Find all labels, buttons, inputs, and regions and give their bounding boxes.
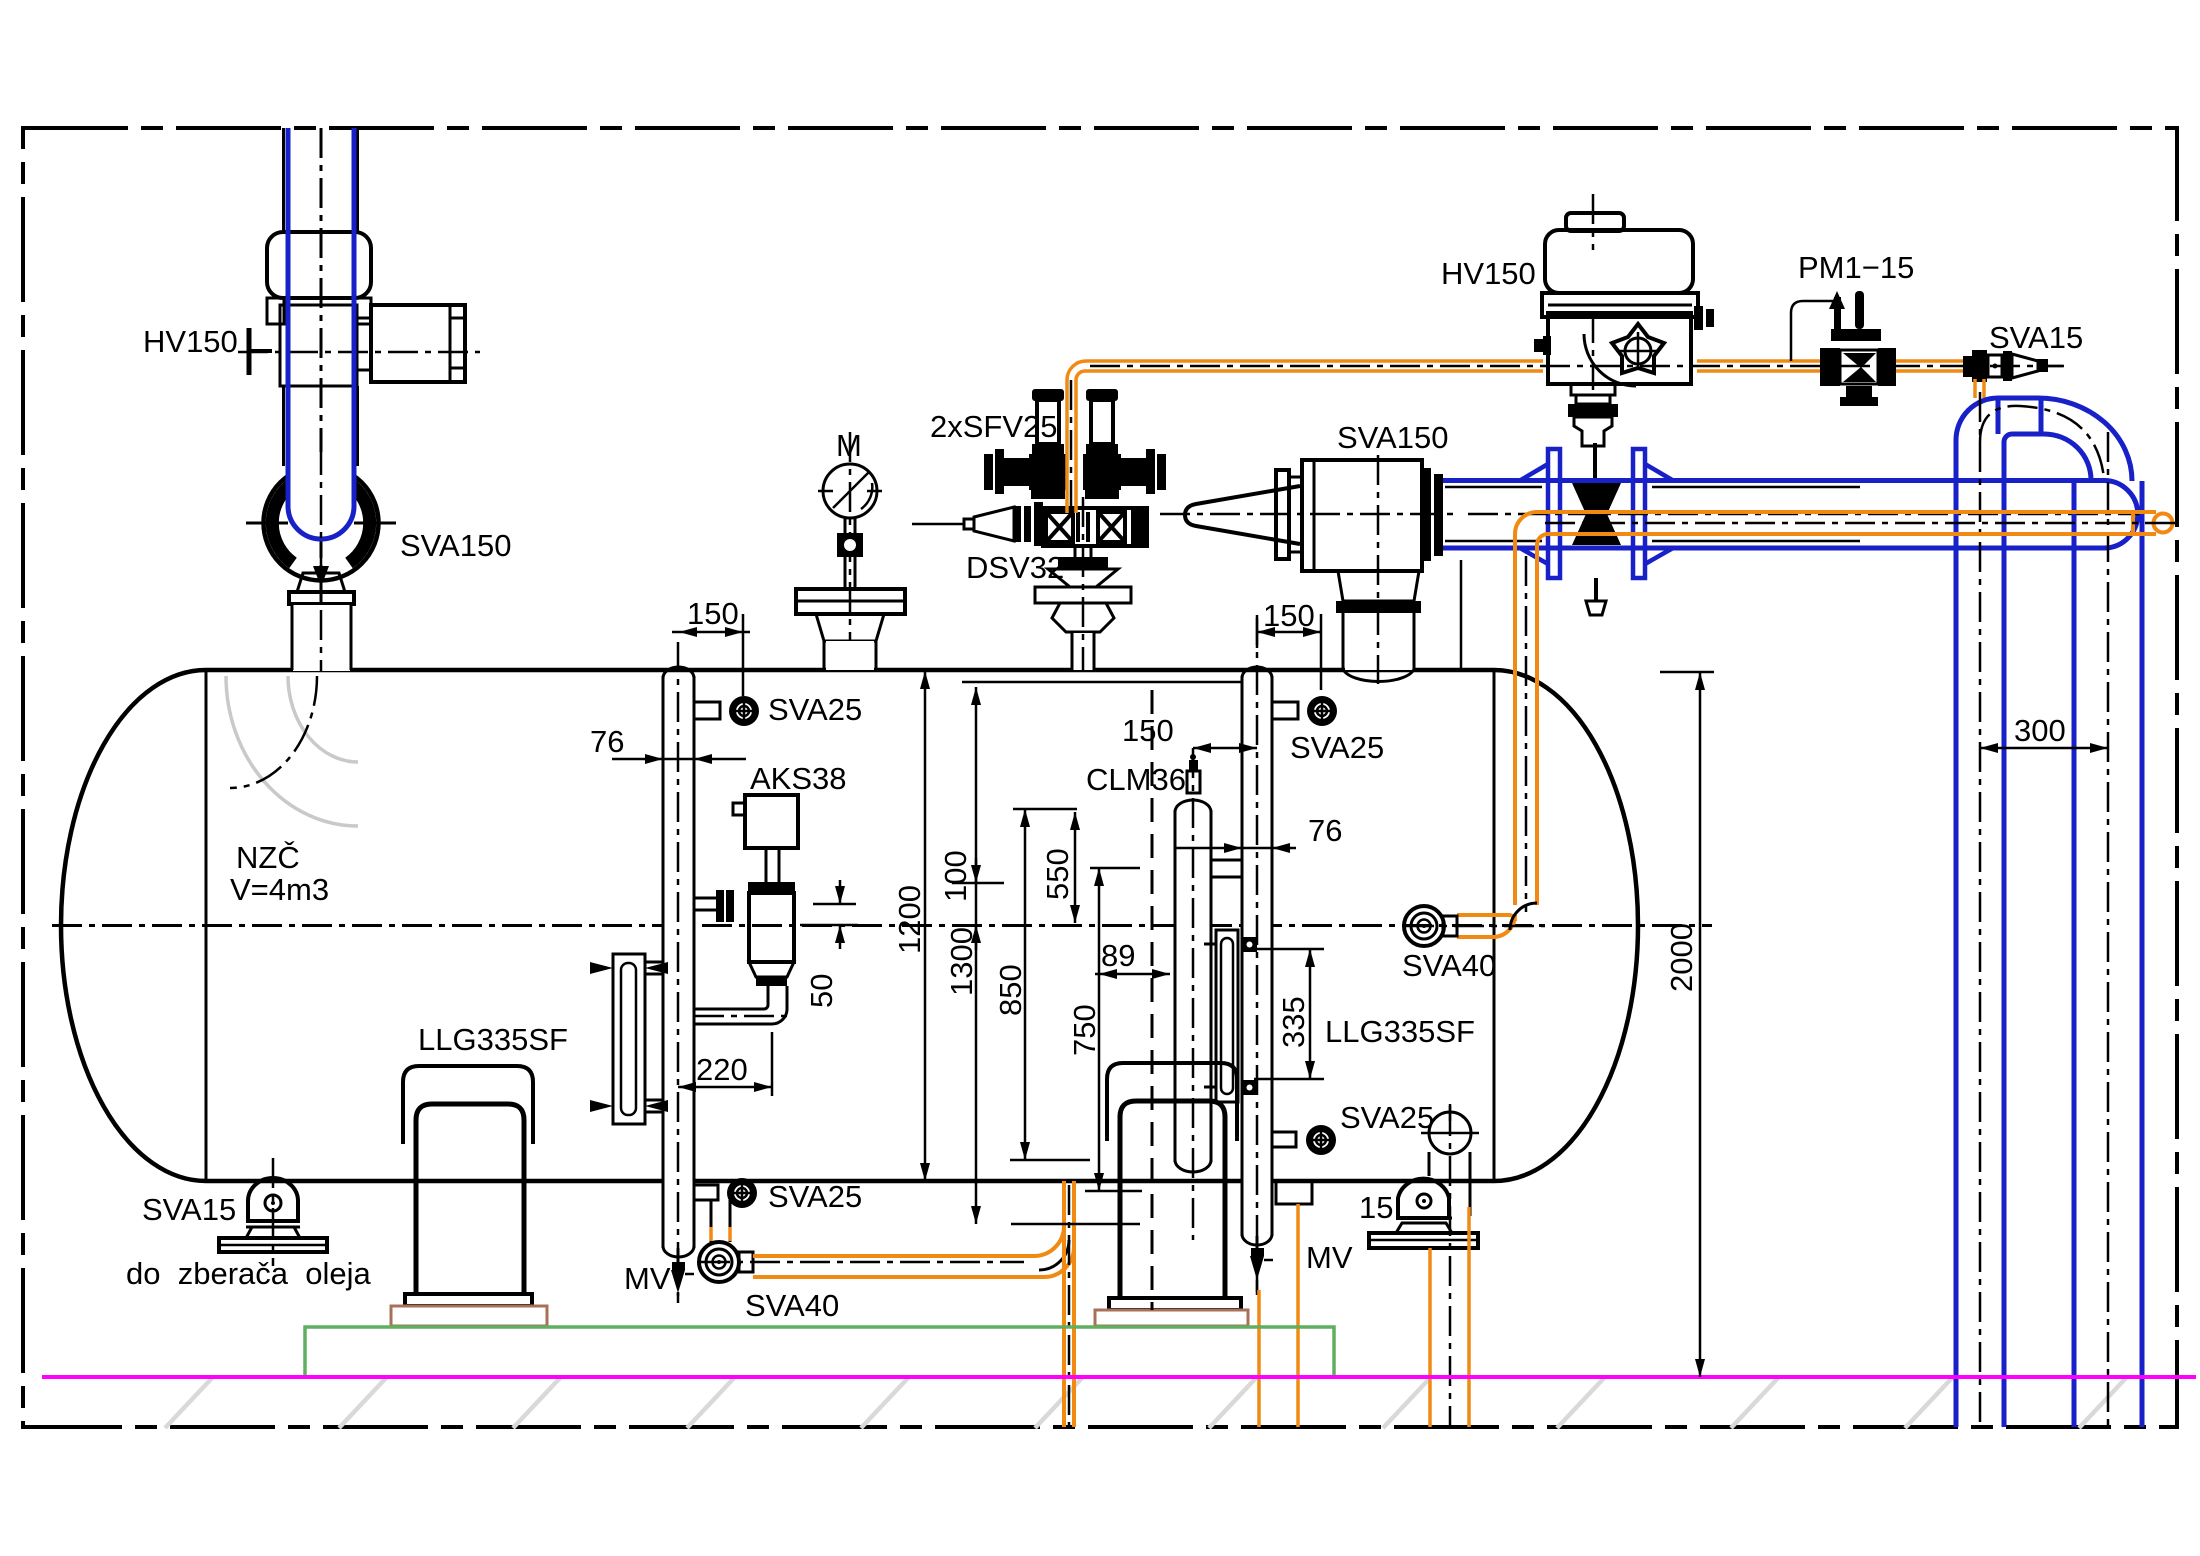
svg-text:M: M <box>836 428 862 463</box>
tank left head seam <box>205 670 208 1181</box>
orange top run centerline <box>1090 365 2063 368</box>
gray floor hatching <box>165 1378 2126 1428</box>
left inlet pipe outline <box>282 128 285 232</box>
svg-text:SVA25: SVA25 <box>1340 1100 1434 1135</box>
support SVA15 bottom left <box>219 1158 327 1266</box>
svg-text:LLG335SF: LLG335SF <box>418 1022 568 1057</box>
svg-text:1200: 1200 <box>892 885 927 954</box>
right support concrete pad <box>1095 1310 1248 1326</box>
svg-text:SVA25: SVA25 <box>1290 730 1384 765</box>
dimension 76 left <box>612 754 746 764</box>
svg-text:50: 50 <box>804 974 839 1008</box>
svg-text:CLM36: CLM36 <box>1086 762 1186 797</box>
valve SVA40 right <box>1404 906 1457 946</box>
orange drain stubs right standpipe <box>1257 1290 1261 1427</box>
dimension 1300 vertical <box>962 682 1242 1224</box>
pipe bore through elbow <box>288 452 354 539</box>
manometer M gauge dial <box>823 464 877 518</box>
manometer M nozzle neck <box>816 614 884 641</box>
valve HV150 left handwheel <box>247 328 252 375</box>
svg-text:2000: 2000 <box>1664 923 1699 992</box>
svg-text:MV: MV <box>624 1261 671 1296</box>
dimension 850 vertical <box>1010 809 1090 1160</box>
right level standpipe <box>1242 615 1272 1296</box>
svg-text:750: 750 <box>1067 1004 1102 1056</box>
svg-text:335: 335 <box>1276 996 1311 1048</box>
svg-text:150: 150 <box>1122 713 1174 748</box>
orange elbow to SVA40 right <box>1457 915 1515 921</box>
svg-text:100: 100 <box>938 850 973 902</box>
svg-text:89: 89 <box>1101 938 1135 973</box>
valve SVA25 right bottom <box>1272 1125 1336 1155</box>
svg-text:220: 220 <box>696 1052 748 1087</box>
svg-text:MV: MV <box>1306 1240 1353 1275</box>
SVA150 right bottom outlet <box>1338 571 1419 601</box>
dimension 76 right <box>1175 843 1296 853</box>
svg-text:SVA25: SVA25 <box>768 1179 862 1214</box>
valve below DSV32 <box>1035 497 1131 672</box>
dimension 150 right lower <box>1193 743 1257 753</box>
dimension 100 <box>952 858 1004 950</box>
svg-text:SVA25: SVA25 <box>768 692 862 727</box>
valve HV150 left bonnet <box>267 232 371 298</box>
left level standpipe <box>663 642 694 1296</box>
left inlet pipe centerline <box>320 128 323 672</box>
gray inlet elbow inside tank <box>226 676 358 826</box>
dimension 220 <box>678 1032 772 1096</box>
valve HV150 left horizontal centerline <box>238 351 480 354</box>
left saddle support <box>391 1066 547 1326</box>
svg-text:1300: 1300 <box>944 927 979 996</box>
valve SVA40 left <box>699 1242 753 1282</box>
right saddle support <box>1095 1063 1248 1326</box>
dimension 50 <box>800 880 858 949</box>
blue riser return bend <box>1956 392 2142 1427</box>
svg-text:NZČ: NZČ <box>236 840 300 875</box>
tank centerline <box>52 924 1712 927</box>
SVA150 right connector rings <box>1422 468 1431 561</box>
orange lines below support 15 <box>1428 1248 1432 1427</box>
valve HV150 left motor <box>371 305 465 382</box>
valve PM1-15 <box>1791 291 1896 406</box>
tank bottom step right <box>1276 1181 1312 1204</box>
svg-text:PM1−15: PM1−15 <box>1798 250 1914 285</box>
hidden line right standpipe <box>1151 690 1154 1310</box>
svg-text:76: 76 <box>1308 813 1342 848</box>
svg-text:SVA150: SVA150 <box>400 528 511 563</box>
sensor tube CLM36 <box>1175 748 1242 1240</box>
svg-text:76: 76 <box>590 724 624 759</box>
actuator HV150 stem <box>1571 384 1615 395</box>
svg-text:850: 850 <box>993 964 1028 1016</box>
svg-text:SVA15: SVA15 <box>142 1192 236 1227</box>
drain valve MV right <box>1250 1236 1273 1292</box>
orange control line top run <box>1067 361 2063 513</box>
dimension 750 vertical <box>1085 868 1142 1191</box>
butterfly valve disc <box>1572 483 1621 514</box>
svg-text:SVA150: SVA150 <box>1337 420 1448 455</box>
SVA150 right cone <box>1185 486 1300 544</box>
main blue discharge pipe <box>1443 481 2140 549</box>
dimension 89 <box>1095 969 1170 979</box>
safety valves 2xSFV25 left valve <box>984 389 1067 499</box>
level gauge LLG335SF left <box>590 954 668 1124</box>
left support concrete pad <box>391 1306 547 1326</box>
svg-text:2xSFV25: 2xSFV25 <box>930 409 1058 444</box>
svg-text:SVA40: SVA40 <box>745 1288 839 1323</box>
dimension 300 <box>1980 743 2108 753</box>
orange oil drain line left <box>700 1181 1074 1427</box>
dimension 1200 vertical <box>920 671 930 1181</box>
bottom nozzle with support 15 <box>1369 1104 1479 1427</box>
manometer M nozzle flange <box>796 589 905 614</box>
elbow SVA150 left ball crescents <box>272 483 293 563</box>
svg-text:DSV32: DSV32 <box>966 550 1064 585</box>
svg-text:15: 15 <box>1359 1190 1393 1225</box>
elbow SVA150 left ball <box>264 466 379 581</box>
svg-text:150: 150 <box>687 596 739 631</box>
svg-text:do zberača oleja: do zberača oleja <box>126 1256 371 1291</box>
valve SVA25 left top <box>694 696 759 726</box>
nozzle pipe into tank left <box>293 605 350 671</box>
level switch AKS38 <box>694 795 798 1024</box>
orange stub under SVA15 <box>1973 379 1977 398</box>
valve HV150 left body <box>280 305 357 386</box>
svg-text:SVA15: SVA15 <box>1989 320 2083 355</box>
safety valves 2xSFV25 right valve <box>1083 389 1166 499</box>
tank NZC vessel shell <box>61 670 1638 1181</box>
level gauge LLG335SF right <box>1204 930 1257 1102</box>
manometer M centerline <box>849 432 852 672</box>
dimension 150 left <box>672 614 750 696</box>
manometer M stem fitting <box>844 518 847 534</box>
green baseline outline <box>305 1327 1334 1377</box>
svg-text:HV150: HV150 <box>143 324 238 359</box>
dimension 550 vertical <box>1070 812 1080 923</box>
orange liquid line right <box>1404 512 2176 937</box>
butterfly valve blue flanges <box>1520 443 1673 615</box>
valve SVA15 top right <box>1963 350 2064 398</box>
svg-text:HV150: HV150 <box>1441 256 1536 291</box>
svg-text:SVA40: SVA40 <box>1402 948 1496 983</box>
svg-text:LLG335SF: LLG335SF <box>1325 1014 1475 1049</box>
inlet elbow centerline arc <box>230 676 317 788</box>
tank right head seam <box>1493 670 1496 1181</box>
AKS38 drain elbow <box>767 986 770 1005</box>
svg-text:V=4m3: V=4m3 <box>230 872 329 907</box>
pipe to SVA40 left <box>711 1200 730 1242</box>
elbow SVA150 left flange <box>297 573 345 592</box>
svg-text:300: 300 <box>2014 713 2066 748</box>
valve SVA25 left bottom <box>694 1178 757 1208</box>
valve SVA25 right top <box>1272 696 1337 726</box>
blue suction pipe left <box>288 128 354 539</box>
valve HV150 left bonnet tabs <box>267 298 284 324</box>
svg-text:150: 150 <box>1263 598 1315 633</box>
drain valve MV left <box>671 1248 694 1303</box>
dimension 2000 vertical <box>1660 672 1714 1377</box>
elbow SVA150 left trim ticks <box>246 522 288 525</box>
tee valve SVA150 right <box>1160 455 1461 684</box>
changeover valve DSV32 body <box>912 502 1147 546</box>
actuator HV150 right <box>1534 194 1714 446</box>
magenta floor line <box>42 1375 2196 1379</box>
dimension 335 vertical <box>1254 949 1324 1079</box>
dimension 150 right top <box>1257 614 1321 690</box>
svg-text:550: 550 <box>1040 848 1075 900</box>
svg-text:AKS38: AKS38 <box>750 761 847 796</box>
